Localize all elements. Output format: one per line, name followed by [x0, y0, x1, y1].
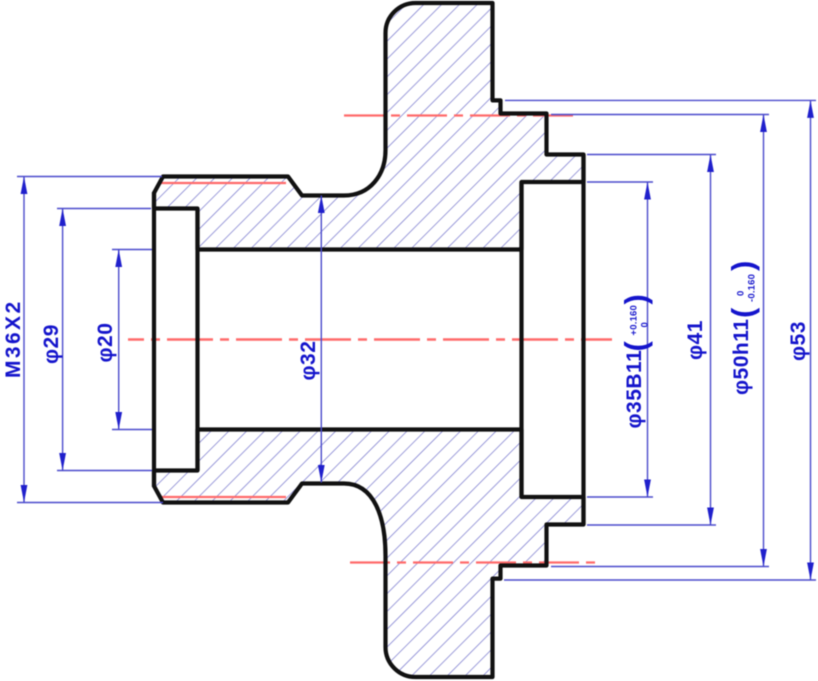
hatched section upper half of flanged bushing (fill) [154, 3, 584, 250]
dimension phi41 [587, 155, 716, 526]
svg-text:φ20: φ20 [94, 323, 117, 363]
dimension phi20 [112, 250, 152, 430]
dimension phi29 [57, 209, 152, 471]
counterbore phi35 bottom wall line [519, 182, 523, 497]
dimension phi53 [504, 100, 816, 580]
svg-text:(: ( [725, 307, 760, 318]
dimension phi32 neck [320, 196, 322, 483]
svg-text:0: 0 [736, 291, 747, 296]
red horizontal centerline axis [128, 338, 612, 340]
svg-text:0: 0 [640, 322, 651, 327]
dimension M36X2 [17, 177, 163, 503]
svg-text:φ29: φ29 [40, 324, 63, 364]
red phi50 gauge line bottom [350, 561, 599, 563]
svg-text:φ35B11: φ35B11 [623, 350, 646, 429]
svg-text:): ) [618, 294, 653, 304]
svg-text:): ) [725, 261, 760, 271]
svg-text:φ50h11: φ50h11 [730, 319, 753, 395]
counterbore phi29 bottom wall line [195, 209, 199, 471]
red thread root line top [160, 182, 286, 184]
red phi50 gauge line top [344, 114, 573, 116]
svg-text:φ32: φ32 [297, 341, 320, 381]
svg-text:(: ( [618, 341, 653, 352]
left end face edge line [152, 192, 156, 487]
dimension phi35B11 counterbore [587, 182, 653, 497]
svg-text:+0.160: +0.160 [629, 305, 640, 336]
svg-text:M36X2: M36X2 [2, 299, 25, 378]
svg-text:φ53: φ53 [787, 321, 810, 361]
svg-text:φ41: φ41 [684, 320, 707, 360]
svg-text:-0.160: -0.160 [747, 274, 758, 302]
red thread root line bottom [160, 496, 286, 498]
hatched section lower half of flanged bushing (fill) [154, 430, 584, 678]
dimension phi50h11 [551, 115, 769, 567]
right end face edge line [581, 155, 585, 525]
outline upper half of flanged bushing [154, 3, 584, 250]
outline lower half of flanged bushing [154, 430, 584, 678]
